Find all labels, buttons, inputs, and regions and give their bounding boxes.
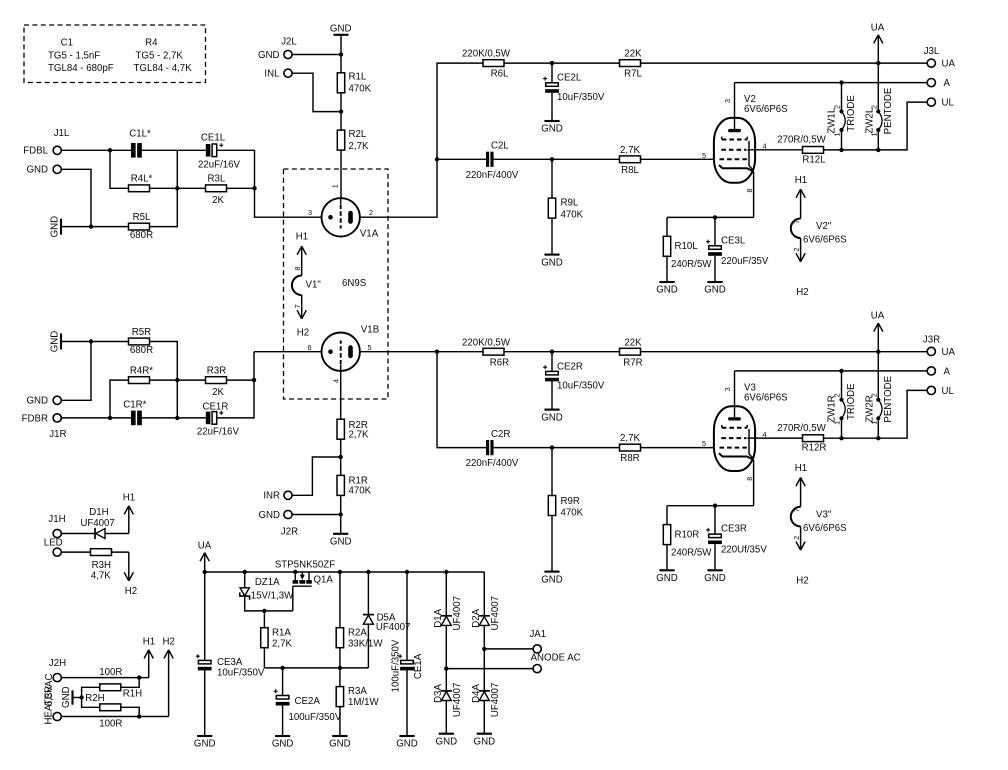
connector J1L [23,128,70,176]
resistor R7R [620,337,643,368]
resistor R5L [129,212,154,241]
wire R4L to junction [150,187,178,189]
resistor R10R [663,525,712,559]
svg-text:470K: 470K [349,84,372,95]
svg-text:680R: 680R [130,230,153,241]
wire R2A to bottom rail [339,648,341,668]
svg-text:TGL84 - 680pF: TGL84 - 680pF [48,63,114,74]
svg-text:2,7K: 2,7K [620,433,640,444]
terminal J1R GND [53,396,61,404]
svg-text:GND: GND [61,686,72,708]
junction ZW1R top [839,369,843,373]
junction GND/R5L [89,224,93,228]
wire junction to CE3R [714,506,716,534]
svg-text:2: 2 [833,393,842,397]
svg-text:H1: H1 [123,492,135,503]
svg-text:LED: LED [44,538,63,549]
connector J1R [22,396,67,440]
wire V1B pin 4 down to R2R [340,371,342,420]
resistor R3A [336,686,379,708]
wire to V1B pin 6 [254,351,322,353]
terminal J3L A [927,79,935,87]
arrow H1 (LED) [123,492,135,533]
wire INL to R1L/R2L node [292,73,341,111]
resistor R3R [206,366,227,398]
resistor R8L [620,145,641,176]
wire CE3A to GND [204,670,206,736]
svg-text:GND: GND [26,396,48,407]
resistor R12L [777,135,826,166]
wire R2R to node [340,439,342,457]
svg-text:GND: GND [474,736,496,747]
wire node up to V1B pin 6 [253,352,255,380]
pentode V2 (6V6/6P6S) [714,118,755,183]
wire rail to CE1A [406,572,408,660]
svg-text:JA1: JA1 [529,629,546,640]
svg-text:470K: 470K [561,508,584,519]
connector J2R [258,491,298,538]
junction DZ1A [243,570,247,574]
svg-text:D3A: D3A [433,684,444,703]
resistor R8R [620,433,641,464]
junction bottom wire / divider [175,416,179,420]
wire CE2A to GND [282,706,284,737]
ground below CE1A [396,736,418,750]
junction R3R/CE1R [252,378,256,382]
junction D1A [444,570,448,574]
wire ZW2R to R12R rail [877,420,879,438]
svg-text:J2H: J2H [49,658,66,669]
svg-text:GND: GND [329,739,351,750]
wire R2H to bottom wire [121,707,139,716]
ground below R9L [541,255,563,269]
svg-text:6V6/6P6S: 6V6/6P6S [744,104,788,115]
terminal J3R A [927,367,935,375]
resistor R12R [777,423,826,454]
svg-text:GND: GND [49,216,60,238]
resistor R9R [548,496,583,519]
svg-text:5: 5 [368,343,372,352]
diode D5A [363,612,411,633]
capacitor C2L [466,141,519,181]
wire gate rail to R1A [263,611,265,628]
wire node to R1R [340,457,342,475]
capacitor CE3R [706,524,767,556]
resistor R3L [206,173,227,206]
svg-text:R5L: R5L [133,212,151,223]
svg-text:100uF/350V: 100uF/350V [289,712,342,723]
svg-text:R10L: R10L [675,241,699,252]
wire to JA1 pin2 [446,668,533,670]
svg-text:1M/1W: 1M/1W [348,697,380,708]
junction R3L/CE1L [252,186,256,190]
wire V1A pin 2 up to R6L [360,63,483,217]
svg-text:680R: 680R [130,345,153,356]
wire V1B pin 5 to R6R node [360,351,437,353]
svg-text:220K/0,5W: 220K/0,5W [462,49,511,60]
wire to R1L top [340,55,342,73]
svg-text:R6R: R6R [490,357,509,368]
wire J2L GND [292,54,341,56]
wire D3A to GND [445,701,447,734]
svg-text:GND: GND [272,739,294,750]
triode V1A [308,184,379,239]
wire rail to DZ1A [244,572,246,588]
dashed outline tube V1 (6N9S) [284,169,389,399]
svg-text:V1": V1" [306,279,322,290]
wire INR to R2R/R1R node [292,457,341,495]
svg-text:GND: GND [330,536,352,547]
jumper ZW2R [876,398,882,421]
junction CE2A [280,666,284,670]
ground below D4A [474,734,496,748]
svg-text:22K: 22K [624,337,642,348]
MOSFET Q1A [275,559,335,611]
svg-text:R3H: R3H [92,560,111,571]
terminal J3L UL [927,98,935,106]
terminal J2H pin1 [53,674,61,682]
svg-text:H1: H1 [795,175,807,186]
diode D1A [433,596,463,630]
svg-text:UA: UA [871,22,885,33]
svg-text:100R: 100R [99,718,122,729]
svg-text:UF4007: UF4007 [376,622,410,633]
junction R1A top [262,609,266,613]
svg-text:CE3R: CE3R [721,524,747,535]
junction D5A [366,570,370,574]
svg-text:CE2R: CE2R [557,361,583,372]
wire pin 8 to R10R/CE3R [667,505,754,507]
junction GND/R1L [339,52,343,56]
svg-text:PENTODE: PENTODE [883,87,894,134]
svg-text:C1: C1 [61,37,73,48]
power arrow UA (right channel) [871,311,885,352]
junction CE3A [203,570,207,574]
svg-text:7: 7 [792,220,801,224]
wire R1A to bottom rail [263,648,265,668]
junction V1B pin5/R6R [435,350,439,354]
wire rail to R2A [339,572,341,628]
terminal J1R FDBR [53,414,61,422]
wire C2L to R8L [494,158,620,160]
svg-text:UF4007: UF4007 [490,683,501,717]
svg-text:J2R: J2R [281,527,298,538]
arrow H2 (heater) [163,637,175,717]
terminal J1L FDBL [53,146,61,154]
junction GND/R5R [89,339,93,343]
svg-text:2K: 2K [212,195,224,206]
svg-text:R3R: R3R [207,366,226,377]
svg-text:GND: GND [656,285,678,296]
wire R3L to node [227,187,255,189]
svg-text:R12R: R12R [802,443,827,454]
svg-text:R2L: R2L [349,129,367,140]
svg-text:GND: GND [436,736,458,747]
svg-text:1: 1 [870,421,879,425]
svg-text:6V6/6P6S: 6V6/6P6S [744,392,788,403]
junction R4R/R3R [175,378,179,382]
svg-text:H1: H1 [795,463,807,474]
ground below R10L [656,282,678,296]
wire D4A to GND [483,701,485,734]
svg-text:H1: H1 [296,232,308,243]
svg-text:220nF/400V: 220nF/400V [466,458,519,469]
wire gnd to J2L GND node [340,35,342,55]
svg-text:R3L: R3L [208,173,226,184]
svg-text:J3L: J3L [924,46,940,57]
wire J2H pin1 to H1 [61,677,148,679]
ground below CE2R [541,410,563,424]
wire ZW2L to R12L rail [877,132,879,150]
svg-text:R7R: R7R [623,357,642,368]
junction R9L [550,157,554,161]
junction Q1A drain [293,570,297,574]
svg-text:UL: UL [942,97,955,108]
wire rail to CE2A [282,668,284,696]
terminal J3L UA [927,59,935,67]
junction ZW1L bottom [839,148,843,152]
resistor R1R [337,475,372,496]
svg-text:GND: GND [330,24,352,35]
svg-text:8: 8 [293,267,302,271]
svg-text:240R/5W: 240R/5W [671,547,712,558]
svg-text:FDBR: FDBR [22,413,48,424]
ground below CE3A [194,736,216,750]
svg-text:R4: R4 [145,37,158,48]
wire C1R to CE1R [142,417,206,419]
svg-text:H2: H2 [297,328,309,339]
svg-text:PENTODE: PENTODE [883,375,894,422]
wire CE2R to GND [551,381,553,409]
terminal J1L GND [53,165,61,173]
junction INR/R1R/R2R [339,455,343,459]
svg-text:2: 2 [792,248,801,252]
wire R1R to GND [340,495,342,533]
svg-text:220nF/400V: 220nF/400V [466,170,519,181]
svg-text:R1A: R1A [272,627,291,638]
resistor R1L [337,72,371,95]
svg-text:H1: H1 [143,637,155,648]
svg-text:J1L: J1L [54,128,70,139]
svg-text:3: 3 [308,208,312,217]
wire R4R to junction [150,379,178,381]
terminal J2L GND [284,50,292,58]
junction CE3R [713,504,717,508]
capacitor CE1L [198,133,241,171]
svg-text:270R/0,5W: 270R/0,5W [777,135,826,146]
svg-text:INR: INR [263,491,280,502]
junction R2H bottom [137,714,141,718]
wire R8R to V3 pin 5 [641,447,715,449]
junction UA rail R [876,350,880,354]
wire J2H pin2 to H2 [61,716,168,718]
svg-text:Q1A: Q1A [314,574,334,585]
capacitor CE2R [543,361,605,391]
svg-text:1: 1 [833,421,842,425]
svg-text:GND: GND [704,573,726,584]
junction ZW1L top [839,80,843,84]
wire down to R10R [666,506,668,525]
wire rail to CE2R [551,352,553,372]
ground below R3A [329,736,351,750]
svg-text:R6L: R6L [491,69,509,80]
jumper ZW1R [839,398,845,421]
wire down to R10L [666,217,668,236]
label V2 [702,94,788,192]
svg-text:470K: 470K [349,485,372,496]
wire node to R9L [551,159,553,198]
ground below R9R [541,572,563,586]
labels ZW1R [827,383,857,425]
svg-text:100R: 100R [99,667,122,678]
junction CE2R [550,350,554,354]
svg-text:7: 7 [293,304,302,308]
junction FDBR/R4R [108,416,112,420]
svg-text:TRIODE: TRIODE [846,95,857,132]
svg-text:GND: GND [704,285,726,296]
junction J2R GND [339,512,343,516]
svg-text:1: 1 [833,133,842,137]
wire FDBL node down to R4L [110,150,129,188]
svg-text:H2: H2 [796,287,808,298]
wire V2 pin 4 to R12L [748,149,803,151]
junction ZW2R bottom [876,436,880,440]
wire node to R9R [551,448,553,496]
capacitor CE3L [706,235,769,267]
svg-text:D1A: D1A [433,608,444,627]
svg-text:UF4007: UF4007 [452,683,463,717]
wire R8L to V2 pin 5 [641,158,715,160]
svg-text:R9R: R9R [561,496,580,507]
resistor R10L [663,236,712,270]
wire R5L up to top wire [150,150,178,226]
junction R2A [338,570,342,574]
arrow H2 (LED) [124,552,137,597]
zener diode DZ1A [240,577,294,602]
resistor R2H [85,693,120,711]
terminal J3R UL [927,386,935,394]
svg-text:V2": V2" [816,221,832,232]
svg-text:A: A [944,78,951,89]
ground below D3A [436,734,458,748]
svg-text:2: 2 [792,536,801,540]
wire R7R to J3R UA [641,351,928,353]
resistor R4R [129,366,154,384]
labels ZW2R [864,375,894,424]
svg-text:6V6/6P6S: 6V6/6P6S [803,523,847,534]
svg-text:R1H: R1H [123,688,142,699]
ground below CE3R [704,570,726,584]
wire A rail to ZW1R [841,371,843,398]
svg-text:GND: GND [194,739,216,750]
wire R12R to J3R UL [824,390,928,438]
svg-text:5: 5 [702,439,706,448]
wire R9R to GND [551,516,553,572]
svg-text:UF4007: UF4007 [452,596,463,630]
wire R12L to J3L UL [824,102,928,150]
power arrow UA (left channel) [871,22,885,63]
junction ZW1R bottom [839,436,843,440]
power arrow UA (PSU) [198,541,212,572]
wire CE3R to GND [714,544,716,570]
svg-text:10uF/350V: 10uF/350V [217,668,265,679]
wire R3R to node [227,379,255,381]
ground below CE3L [704,282,726,296]
svg-text:33K/1W: 33K/1W [348,638,383,649]
svg-text:1: 1 [331,184,340,188]
wire R6L to R7L [504,62,620,64]
wire DZ1A to gate [245,596,293,611]
wire to C1R [110,417,131,419]
capacitor CE2A [274,689,342,722]
wire ZW1R to R12R rail [841,420,843,438]
connector J2L [258,36,297,79]
svg-text:CE1R: CE1R [202,402,228,413]
wire V3 pin 8 down [753,460,755,506]
resistor R9L [548,198,583,221]
svg-text:V1A: V1A [360,229,379,240]
svg-text:22uF/16V: 22uF/16V [197,427,240,438]
ground below R10R [656,570,678,584]
wire node to D4A [483,649,485,691]
connector J3R [923,334,956,396]
resistor R7L [620,49,643,80]
svg-text:470K: 470K [561,210,584,221]
wire to R5L [91,226,129,228]
wire R9L to GND [551,218,553,255]
labels ZW2L [864,87,894,136]
wire R3H to H2 arrow [112,551,129,553]
svg-text:220uF/35V: 220uF/35V [721,256,769,267]
svg-text:GND: GND [26,165,48,176]
svg-text:C2R: C2R [491,429,510,440]
svg-text:GND: GND [49,331,60,353]
heater symbol V1" (6N9S) [292,232,367,339]
wire to C1L [110,149,131,151]
svg-text:6: 6 [308,343,312,352]
ground symbol above R1L [330,24,352,35]
resistor R2L [337,129,369,152]
svg-text:2,7K: 2,7K [349,430,369,441]
svg-text:220Uf/35V: 220Uf/35V [721,544,767,555]
capacitor C1R [123,400,146,426]
svg-text:C1L*: C1L* [129,128,151,139]
svg-text:UA: UA [871,311,885,322]
svg-text:D2A: D2A [471,608,482,627]
svg-text:GND: GND [541,412,563,423]
capacitor CE1R [197,402,240,438]
ground below J2R [330,534,352,548]
terminal J2L INL [284,69,292,77]
resistor R6L [462,49,511,80]
wire CE1L to R3L node [217,150,255,188]
junction R9R [550,445,554,449]
svg-text:J1R: J1R [49,429,66,440]
svg-text:240R/5W: 240R/5W [671,259,712,270]
wire R10R to GND [666,545,668,571]
wire node to C2L [437,158,486,160]
svg-text:8: 8 [745,477,754,481]
wire to R6R [437,351,483,353]
junction UA rail [876,61,880,65]
wire gnd tick to R5L [61,226,91,228]
capacitor C1L [129,128,151,157]
capacitor CE3A [196,654,265,678]
svg-text:UA: UA [942,347,956,358]
svg-text:2: 2 [369,208,373,217]
pentode V3 (6V6/6P6S) [714,406,755,471]
svg-text:CE2A: CE2A [295,696,321,707]
